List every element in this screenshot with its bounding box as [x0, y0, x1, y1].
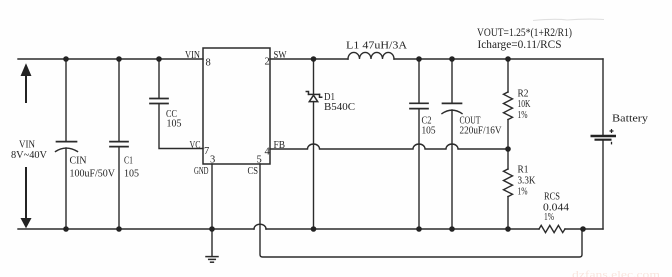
svg-text:220uF/16V: 220uF/16V	[460, 126, 502, 137]
node top COUT	[449, 56, 455, 62]
svg-text:8: 8	[206, 58, 211, 69]
node top D1	[311, 56, 317, 62]
arrow VIN down	[21, 167, 30, 227]
svg-text:10K: 10K	[518, 99, 531, 110]
svg-text:VC: VC	[190, 140, 201, 151]
wire CS pin lead and sense line	[260, 164, 582, 257]
node bottom CIN	[63, 226, 69, 232]
wire C1 top lead	[118, 59, 120, 141]
wire COUT bottom lead	[451, 110, 453, 229]
svg-text:100uF/50V: 100uF/50V	[70, 169, 116, 180]
resistor R2	[504, 92, 513, 120]
svg-text:R1: R1	[518, 165, 529, 176]
node top CIN	[63, 56, 69, 62]
wire CIN top lead	[65, 59, 67, 141]
svg-text:CS: CS	[248, 166, 259, 177]
wire top rail left	[18, 58, 203, 60]
node top CC	[156, 56, 162, 62]
wire top rail L1 to battery	[394, 58, 603, 60]
wire C2 top lead	[418, 59, 420, 103]
wire RCS to battery node	[565, 228, 583, 230]
wire bottom rail to RCS	[266, 228, 539, 230]
wire hop over CS line	[254, 224, 266, 229]
svg-text:VIN: VIN	[185, 50, 200, 61]
node top R2	[505, 56, 511, 62]
svg-text:1%: 1%	[518, 110, 528, 121]
wire C2 bottom lead	[418, 109, 420, 229]
node bottom D1	[311, 226, 317, 232]
wire C1 bottom lead	[118, 147, 120, 229]
node RCS battery	[580, 226, 586, 232]
node bottom COUT	[449, 226, 455, 232]
wire D1 anode lead	[313, 102, 315, 229]
IC U1 switching regulator box	[203, 48, 270, 164]
svg-text:2: 2	[265, 57, 270, 68]
wire GND pin lead	[211, 164, 213, 256]
ground	[206, 256, 218, 258]
svg-text:SW: SW	[274, 50, 287, 61]
capacitor CIN	[57, 141, 77, 143]
diode D1 schottky	[306, 92, 321, 102]
svg-text:3: 3	[210, 155, 215, 166]
wire battery top lead	[602, 59, 604, 135]
arrow VIN up	[21, 65, 30, 104]
svg-text:105: 105	[167, 119, 182, 130]
wire CC to VC pin	[159, 104, 203, 148]
wire D1 cathode lead	[313, 59, 315, 94]
svg-text:C1: C1	[124, 156, 133, 167]
svg-text:FB: FB	[274, 140, 286, 151]
svg-text:Icharge=0.11/RCS: Icharge=0.11/RCS	[478, 37, 562, 51]
svg-text:105: 105	[422, 126, 436, 137]
node bottom C2	[416, 226, 422, 232]
svg-text:Battery: Battery	[612, 114, 649, 125]
wire CC top lead	[158, 59, 160, 98]
battery	[591, 129, 617, 144]
faint smudge	[533, 19, 604, 20]
svg-text:7: 7	[204, 146, 209, 157]
resistor RCS	[539, 225, 565, 232]
wire R2 top lead	[507, 59, 509, 92]
wire battery bottom lead	[602, 141, 604, 230]
wire bottom rail left of CS hop	[18, 228, 254, 230]
svg-text:1%: 1%	[518, 187, 528, 198]
wire FB line with hops	[270, 144, 508, 149]
wire R1 bottom lead	[507, 197, 509, 229]
svg-text:105: 105	[124, 169, 139, 180]
svg-text:3.3K: 3.3K	[518, 176, 536, 187]
svg-text:dzfans.elec.com: dzfans.elec.com	[572, 270, 660, 277]
capacitor COUT	[443, 102, 462, 104]
svg-text:VIN: VIN	[19, 140, 35, 151]
node top C1	[116, 56, 122, 62]
node bottom C1	[116, 226, 122, 232]
wire CIN bottom lead	[65, 148, 67, 229]
resistor R1	[504, 169, 513, 197]
svg-text:1%: 1%	[544, 212, 554, 223]
svg-text:L1 47uH/3A: L1 47uH/3A	[346, 41, 407, 52]
svg-text:B540C: B540C	[324, 102, 355, 113]
node bottom GND	[209, 226, 215, 232]
svg-text:R2: R2	[518, 89, 529, 100]
svg-text:4: 4	[265, 147, 271, 158]
inductor L1	[348, 52, 394, 59]
svg-text:5: 5	[257, 155, 262, 166]
capacitor CC	[150, 98, 168, 100]
wire R2 to FB node	[507, 120, 509, 149]
wire COUT top lead	[451, 59, 453, 103]
node top C2	[416, 56, 422, 62]
node bottom R1	[505, 226, 511, 232]
svg-text:GND: GND	[194, 166, 209, 177]
svg-text:RCS: RCS	[544, 192, 560, 203]
capacitor C1	[110, 141, 128, 143]
wire FB node to R1	[507, 149, 509, 169]
capacitor C2	[410, 102, 428, 104]
node FB divider	[505, 146, 511, 152]
wire top rail SW to L1	[270, 58, 348, 60]
svg-text:CIN: CIN	[70, 156, 87, 167]
svg-text:8V~40V: 8V~40V	[11, 150, 47, 161]
